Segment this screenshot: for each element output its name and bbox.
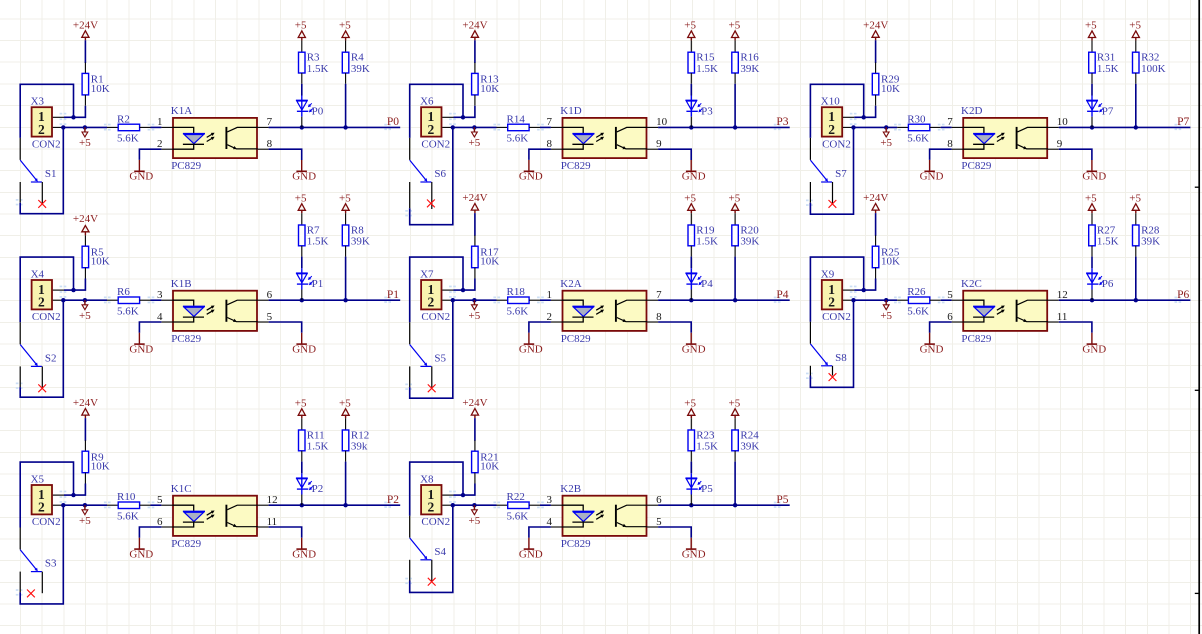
pin 1 of X5 (53, 494, 64, 496)
wire R2 to K1A (151, 126, 162, 128)
svg-text:10K: 10K (480, 83, 499, 95)
wire switch S3 to X5 pin 2 (20, 505, 63, 604)
svg-text:GND: GND (1082, 343, 1106, 355)
pin 1 of X9 (843, 289, 854, 291)
svg-text:5.6K: 5.6K (907, 305, 929, 317)
wire K2B pin 5 to ground (658, 527, 691, 538)
svg-text:GND: GND (519, 343, 543, 355)
power +5 (R12) (339, 397, 351, 418)
svg-text:PC829: PC829 (171, 333, 201, 345)
switch S5 (410, 322, 447, 392)
internal LED (563, 505, 584, 511)
svg-text:+5: +5 (684, 397, 696, 409)
connector X7 CON2 (420, 268, 453, 323)
resistor R6 5.6K (107, 286, 151, 317)
power +5 (pull-down tap) (79, 503, 91, 527)
connector X3 CON2 (31, 96, 64, 151)
svg-text:R14: R14 (507, 113, 526, 125)
svg-text:+5: +5 (1129, 20, 1141, 32)
wire R11 to LED P2 (301, 462, 303, 474)
svg-text:CON2: CON2 (822, 311, 851, 323)
svg-text:P0: P0 (312, 105, 324, 117)
svg-text:10K: 10K (480, 256, 499, 268)
svg-text:S1: S1 (45, 168, 57, 180)
wire X7 pin 2 to R18 (451, 298, 497, 302)
resistor R7 1.5K (299, 213, 329, 256)
svg-text:1.5K: 1.5K (1097, 236, 1119, 248)
wire K2A pin 2 to ground (529, 322, 551, 333)
svg-text:+24V: +24V (73, 213, 98, 225)
svg-text:P1: P1 (387, 289, 399, 301)
wire K1D pin 8 to ground (529, 149, 551, 160)
svg-text:R31: R31 (1097, 52, 1115, 64)
pin 9 (1048, 148, 1059, 150)
svg-text:2: 2 (828, 122, 835, 137)
wire X9 pin 2 to R26 (851, 298, 897, 302)
wire K1A pin 7 to node P0 (269, 125, 401, 129)
svg-text:+5: +5 (295, 192, 307, 204)
ground GND (left) (920, 333, 944, 356)
svg-text:5.6K: 5.6K (117, 305, 139, 317)
svg-text:2: 2 (38, 295, 45, 310)
svg-text:PC829: PC829 (961, 160, 991, 172)
wire K1C pin 6 to ground (139, 527, 161, 538)
svg-text:+5: +5 (79, 515, 91, 527)
pin 5 (952, 299, 964, 301)
svg-text:39K: 39K (740, 236, 759, 248)
svg-text:K2D: K2D (961, 105, 982, 117)
LED P6 (1086, 268, 1114, 300)
wire X3 pin 2 to R2 (61, 125, 107, 129)
svg-text:PC829: PC829 (171, 538, 201, 550)
wire K2D pin 10 to node P7 (1059, 125, 1191, 129)
svg-text:R20: R20 (740, 224, 759, 236)
svg-text:5.6K: 5.6K (907, 133, 929, 145)
internal LED (563, 300, 584, 306)
internal phototransistor (615, 127, 617, 149)
power +5 (R19) (684, 192, 696, 213)
junction node X3.1 (71, 115, 75, 119)
pin 2 of X4 (53, 299, 64, 301)
wire switch S8 to X9 pin 2 (810, 300, 853, 387)
ground GND (right) (1082, 333, 1106, 356)
internal phototransistor (1016, 127, 1018, 149)
no-connect marker (27, 590, 35, 598)
no-connect marker (38, 384, 46, 392)
pin 1 of X3 (53, 116, 64, 118)
ground GND (right) (682, 333, 706, 356)
svg-text:1.5K: 1.5K (307, 63, 329, 75)
power +24V (column of R29) (863, 19, 888, 40)
svg-text:8: 8 (547, 138, 553, 150)
svg-text:7: 7 (656, 289, 662, 301)
power +5 (R23) (684, 397, 696, 418)
resistor R23 1.5K (688, 418, 718, 461)
wire R26 to K2C (941, 299, 952, 301)
svg-text:4: 4 (547, 516, 553, 528)
svg-text:7: 7 (267, 116, 273, 128)
power +5 (R32) (1129, 20, 1141, 41)
svg-text:39K: 39K (740, 63, 759, 75)
svg-text:GND: GND (1082, 171, 1106, 183)
svg-text:GND: GND (920, 343, 944, 355)
switch S3 (20, 528, 57, 598)
svg-text:2: 2 (38, 500, 45, 515)
svg-text:39K: 39K (351, 63, 370, 75)
pin 7 (647, 299, 658, 301)
pin 2 of X10 (843, 126, 854, 128)
wire R16 to node P3 (734, 84, 736, 128)
resistor R9 10K (82, 440, 110, 483)
no-connect marker (427, 200, 435, 208)
junction node P2 (pull-up branch) (343, 503, 347, 507)
svg-text:+5: +5 (339, 397, 351, 409)
wire R23 to LED P5 (690, 462, 692, 474)
ground GND (left) (129, 538, 153, 561)
wire K2B pin 4 to ground (529, 527, 551, 538)
pin 12 (258, 504, 269, 506)
pin 2 of X6 (442, 126, 453, 128)
svg-text:R7: R7 (307, 224, 320, 236)
wire X10 pin 2 to R30 (851, 125, 897, 129)
junction node X10.1 (862, 115, 866, 119)
wire switch S1 to X3 pin 2 (20, 127, 63, 213)
resistor R26 5.6K (897, 286, 941, 317)
junction node X7.1 (461, 288, 465, 292)
svg-text:R32: R32 (1141, 52, 1159, 64)
junction node P5 (LED branch) (689, 503, 693, 507)
LED P5 (685, 473, 713, 505)
svg-text:39K: 39K (351, 236, 370, 248)
resistor R10 5.6K (107, 491, 151, 522)
wire X5 pin 2 to R10 (61, 503, 107, 507)
wire switch S5 to X7 pin 2 (410, 300, 453, 398)
wire loop X7 pin 1 to switch S5 (410, 257, 463, 322)
wire X4 pin 2 to R6 (61, 298, 107, 302)
resistor R24 39K (732, 418, 760, 461)
LED P0 (296, 96, 324, 128)
resistor R18 5.6K (497, 286, 541, 317)
wire R25 to X9 pin 1 (854, 279, 875, 293)
resistor R22 5.6K (497, 491, 541, 522)
svg-text:2: 2 (428, 122, 435, 137)
svg-text:X3: X3 (31, 96, 45, 108)
svg-text:K1D: K1D (560, 105, 581, 117)
resistor R12 39k (342, 418, 369, 461)
svg-text:+5: +5 (469, 310, 481, 322)
svg-text:3: 3 (547, 494, 553, 506)
resistor R8 39K (342, 213, 370, 256)
svg-text:X7: X7 (420, 268, 434, 280)
power +24V (column of R25) (863, 192, 888, 213)
resistor R32 100K (1133, 40, 1166, 83)
svg-text:GND: GND (129, 548, 153, 560)
svg-text:1: 1 (547, 289, 553, 301)
resistor R19 1.5K (688, 213, 718, 256)
pin 5 (161, 504, 173, 506)
junction node X8.1 (461, 493, 465, 497)
junction node P6 (pull-up branch) (1134, 298, 1138, 302)
wire R32 to node P7 (1135, 84, 1137, 128)
switch S4 (410, 516, 447, 586)
junction node X5.1 (71, 493, 75, 497)
optocoupler K1D PC829 (547, 105, 668, 172)
svg-text:P6: P6 (1177, 289, 1189, 301)
wire R24 to node P5 (734, 462, 736, 506)
svg-text:P4: P4 (776, 289, 788, 301)
wire R31 to LED P7 (1091, 84, 1093, 96)
svg-text:P0: P0 (387, 116, 399, 128)
svg-text:39K: 39K (740, 441, 759, 453)
svg-text:8: 8 (267, 138, 273, 150)
LED P2 (296, 473, 323, 505)
ground GND (left) (920, 160, 944, 183)
svg-text:9: 9 (1057, 138, 1063, 150)
svg-text:1.5K: 1.5K (1097, 63, 1119, 75)
wire K1D pin 10 to node P3 (658, 125, 790, 129)
svg-text:8: 8 (656, 311, 662, 323)
svg-text:X6: X6 (420, 96, 434, 108)
svg-text:6: 6 (267, 289, 273, 301)
internal phototransistor (615, 505, 617, 527)
no-connect marker (428, 578, 436, 586)
switch S2 (20, 322, 56, 392)
svg-text:10: 10 (1057, 116, 1069, 128)
junction node P3 (LED branch) (689, 125, 693, 129)
ground GND (right) (292, 538, 316, 561)
no-connect marker (829, 373, 837, 381)
svg-text:10K: 10K (91, 256, 110, 268)
svg-text:8: 8 (947, 138, 953, 150)
svg-text:R22: R22 (507, 491, 525, 503)
wire R17 to X7 pin 1 (454, 279, 475, 293)
resistor R31 1.5K (1089, 40, 1119, 83)
svg-text:GND: GND (519, 171, 543, 183)
svg-text:+5: +5 (469, 515, 481, 527)
svg-text:X10: X10 (821, 96, 840, 108)
svg-text:CON2: CON2 (421, 138, 450, 150)
wire R21 to X8 pin 1 (454, 484, 475, 498)
svg-text:P7: P7 (1177, 116, 1189, 128)
svg-text:P5: P5 (776, 494, 788, 506)
wire R9 to X5 pin 1 (64, 484, 85, 498)
svg-text:10K: 10K (480, 461, 499, 473)
connector X8 CON2 (420, 473, 453, 528)
svg-text:+5: +5 (1129, 192, 1141, 204)
svg-text:R10: R10 (117, 491, 136, 503)
resistor R1 10K (82, 63, 110, 106)
svg-text:1: 1 (157, 116, 163, 128)
svg-text:GND: GND (519, 548, 543, 560)
switch S7 (810, 138, 847, 208)
svg-text:+5: +5 (295, 397, 307, 409)
svg-text:2: 2 (428, 500, 435, 515)
wire loop X3 pin 1 to switch S1 (20, 84, 73, 138)
pin 1 of X7 (442, 289, 453, 291)
svg-text:P1: P1 (312, 278, 324, 290)
svg-text:+5: +5 (684, 20, 696, 32)
svg-text:P3: P3 (776, 116, 788, 128)
pin 3 (551, 504, 563, 506)
wire R4 to node P0 (345, 84, 347, 128)
wire R1 to X3 pin 1 (64, 106, 85, 120)
svg-text:CON2: CON2 (32, 516, 61, 528)
svg-text:R24: R24 (740, 429, 759, 441)
power +5 (R7) (295, 192, 307, 213)
svg-text:GND: GND (292, 343, 316, 355)
switch S6 (410, 138, 447, 209)
switch S1 (20, 138, 56, 208)
pin 7 (952, 126, 964, 128)
svg-text:R27: R27 (1097, 224, 1116, 236)
optocoupler K2A PC829 (547, 278, 663, 345)
svg-text:K1B: K1B (171, 278, 192, 290)
connector X6 CON2 (420, 96, 453, 151)
pin 1 (161, 126, 173, 128)
wire +24V to R1 (84, 40, 86, 63)
power +24V (column of R21) (462, 397, 487, 418)
junction node P7 (LED branch) (1090, 125, 1094, 129)
svg-text:R8: R8 (351, 224, 364, 236)
optocoupler K1A PC829 (157, 105, 273, 172)
ground GND (left) (129, 160, 153, 183)
wire +24V to R9 (84, 418, 86, 441)
pin 7 (258, 126, 269, 128)
power +24V (column of R5) (73, 213, 98, 236)
svg-text:11: 11 (1057, 311, 1068, 323)
junction node P4 (pull-up branch) (733, 298, 737, 302)
wire R13 to X6 pin 1 (454, 106, 475, 120)
svg-text:R2: R2 (117, 113, 130, 125)
pin 7 (551, 126, 563, 128)
wire loop X6 pin 1 to switch S6 (410, 84, 463, 138)
svg-text:PC829: PC829 (561, 160, 591, 172)
svg-text:P4: P4 (701, 278, 713, 290)
wire R8 to node P1 (345, 257, 347, 301)
internal phototransistor (225, 505, 227, 527)
pin 6 (258, 299, 269, 301)
power +5 (R31) (1085, 20, 1097, 41)
svg-text:K1C: K1C (171, 483, 192, 495)
svg-text:P7: P7 (1102, 105, 1114, 117)
svg-text:5.6K: 5.6K (507, 305, 529, 317)
svg-text:S8: S8 (835, 352, 847, 364)
pin 2 (161, 148, 173, 150)
svg-text:1.5K: 1.5K (696, 236, 718, 248)
svg-text:GND: GND (920, 171, 944, 183)
wire loop X8 pin 1 to switch S4 (410, 462, 463, 516)
svg-text:S3: S3 (45, 558, 57, 570)
pin 1 of X4 (53, 289, 64, 291)
svg-text:2: 2 (547, 311, 553, 323)
pin 2 of X3 (53, 126, 64, 128)
wire K2C pin 6 to ground (930, 322, 952, 333)
pin 11 (1048, 321, 1059, 323)
pin 3 (161, 299, 173, 301)
wire R5 to X4 pin 1 (64, 279, 85, 293)
svg-text:+5: +5 (339, 192, 351, 204)
connector X10 CON2 (821, 96, 854, 151)
LED P4 (685, 268, 713, 300)
wire R29 to X10 pin 1 (854, 106, 875, 120)
svg-text:3: 3 (157, 289, 163, 301)
svg-text:10K: 10K (881, 256, 900, 268)
svg-text:+5: +5 (339, 20, 351, 32)
pin 10 (647, 126, 658, 128)
pin 8 (258, 148, 269, 150)
pin 5 (258, 321, 269, 323)
svg-text:R11: R11 (307, 429, 325, 441)
svg-text:39K: 39K (1141, 236, 1160, 248)
wire K2D pin 8 to ground (930, 149, 952, 160)
svg-text:2: 2 (828, 295, 835, 310)
power +5 (pull-down tap) (469, 298, 481, 322)
svg-text:S7: S7 (835, 168, 847, 180)
wire K2A pin 8 to ground (658, 322, 691, 333)
wire K2A pin 7 to node P4 (658, 298, 790, 302)
ground GND (right) (1082, 160, 1106, 183)
junction node P1 (pull-up branch) (343, 298, 347, 302)
no-connect marker (38, 200, 46, 208)
svg-text:39k: 39k (351, 441, 368, 453)
pin 1 of X8 (442, 494, 453, 496)
wire loop X9 pin 1 to switch S8 (810, 257, 863, 322)
svg-text:R23: R23 (696, 429, 715, 441)
svg-text:5: 5 (656, 516, 662, 528)
wire R30 to K2D (941, 126, 952, 128)
svg-text:GND: GND (682, 343, 706, 355)
internal LED (173, 300, 194, 306)
svg-text:GND: GND (129, 343, 153, 355)
svg-text:5: 5 (947, 289, 953, 301)
svg-text:R6: R6 (117, 286, 130, 298)
svg-text:+5: +5 (729, 192, 741, 204)
ground GND (right) (292, 333, 316, 356)
pin 4 (161, 321, 173, 323)
power +5 (pull-down tap) (79, 298, 91, 322)
svg-text:+5: +5 (295, 20, 307, 32)
svg-text:5.6K: 5.6K (507, 133, 529, 145)
ground GND (left) (129, 333, 153, 356)
optocoupler K2B PC829 (547, 483, 663, 550)
wire R15 to LED P3 (690, 84, 692, 96)
svg-text:K2C: K2C (961, 278, 982, 290)
svg-text:R28: R28 (1141, 224, 1160, 236)
svg-text:S5: S5 (434, 352, 446, 364)
resistor R14 5.6K (497, 113, 541, 144)
svg-text:+5: +5 (729, 20, 741, 32)
svg-text:5: 5 (157, 494, 163, 506)
internal phototransistor (1016, 300, 1018, 322)
svg-text:+5: +5 (469, 137, 481, 149)
svg-text:S4: S4 (434, 546, 446, 558)
svg-text:GND: GND (129, 171, 153, 183)
svg-text:S2: S2 (45, 352, 57, 364)
pin 2 of X5 (53, 504, 64, 506)
wire R22 to K2B (540, 504, 551, 506)
svg-text:6: 6 (947, 311, 953, 323)
svg-text:X9: X9 (821, 268, 835, 280)
wire switch S4 to X8 pin 2 (410, 505, 453, 592)
wire R12 to node P2 (345, 462, 347, 506)
wire R28 to node P6 (1135, 257, 1137, 301)
internal LED (563, 127, 584, 133)
optocoupler K1B PC829 (157, 278, 273, 345)
wire R20 to node P4 (734, 257, 736, 301)
power +5 (pull-down tap) (880, 125, 892, 149)
pin 4 (551, 526, 563, 528)
optocoupler K2D PC829 (947, 105, 1068, 172)
